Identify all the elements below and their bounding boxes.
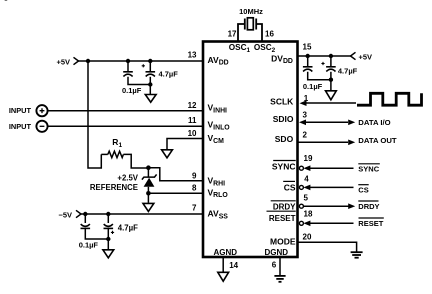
svg-text:20: 20 [303, 233, 312, 242]
inversion bubble pin 19 [299, 166, 303, 170]
svg-text:3: 3 [303, 111, 308, 120]
svg-text:SCLK: SCLK [270, 97, 294, 107]
junction node [306, 54, 310, 58]
svg-text:7: 7 [192, 204, 197, 213]
ground (triangle) for C5/C6 [326, 91, 337, 100]
wire to pin 8 [148, 192, 203, 194]
svg-text:CS: CS [358, 185, 368, 194]
arrowhead into pin 19 [303, 165, 310, 171]
wire MODE pin 20 [298, 242, 357, 251]
junction node [106, 237, 110, 241]
capacitor C4 4.7uF (-5V) [104, 214, 114, 250]
svg-text:4.7µF: 4.7µF [159, 69, 179, 78]
wire SDO pin 2 [298, 141, 349, 143]
svg-text:1: 1 [304, 94, 309, 103]
+5V source connector (right) [351, 52, 356, 59]
capacitor C2 4.7uF (+5V left) [146, 61, 156, 95]
svg-text:16: 16 [265, 30, 274, 39]
svg-text:10MHz: 10MHz [239, 7, 263, 16]
junction node [329, 54, 333, 58]
svg-text:0.1µF: 0.1µF [122, 86, 142, 95]
svg-text:14: 14 [229, 261, 238, 270]
svg-text:DRDY: DRDY [273, 203, 296, 212]
ground (triangle) AGND [218, 272, 229, 281]
svg-text:DATA OUT: DATA OUT [358, 136, 397, 145]
svg-text:INPUT: INPUT [9, 106, 32, 115]
svg-text:11: 11 [188, 116, 197, 125]
clock waveform [357, 93, 422, 105]
svg-text:9: 9 [192, 171, 197, 180]
+5V source connector (left) [74, 57, 79, 64]
svg-text:RESET: RESET [269, 214, 296, 223]
junction node [106, 212, 110, 216]
svg-text:DGND: DGND [265, 248, 289, 257]
svg-text:6: 6 [272, 261, 277, 270]
svg-text:CS: CS [284, 182, 296, 192]
arrowhead out to DRDY [348, 203, 355, 209]
wire DRDY pin 5 [303, 205, 348, 207]
svg-text:AGND: AGND [214, 248, 238, 257]
junction node on +5V rail [86, 59, 90, 63]
junction node (reference bottom) [146, 191, 151, 196]
svg-text:+5V: +5V [56, 57, 70, 66]
svg-text:19: 19 [304, 154, 313, 163]
arrowhead into pin 18 [303, 221, 310, 227]
capacitor C5 0.1uF (DVDD) [303, 56, 331, 80]
wire zener to ground [147, 193, 149, 203]
svg-text:4.7µF: 4.7µF [118, 223, 138, 232]
svg-text:−5V: −5V [58, 210, 72, 219]
-5V source connector [76, 210, 81, 217]
svg-text:4: 4 [304, 174, 309, 183]
wire SYNC pin 19 [309, 167, 354, 169]
zener diode D1 +2.5V reference [142, 168, 157, 194]
wire SCLK pin 1 [305, 102, 356, 104]
junction node [329, 78, 333, 82]
junction node [148, 82, 152, 86]
input connector J1 + [36, 105, 47, 116]
junction node [126, 59, 130, 63]
svg-text:SDO: SDO [275, 134, 294, 144]
polarity mark + [111, 231, 114, 234]
wire J1 to pin 12 [48, 110, 203, 112]
wire +5V rail down to R1 [88, 61, 101, 168]
input connector J2 - [36, 121, 47, 132]
svg-text:+5V: +5V [359, 52, 373, 61]
ground (triangle) for C1/C2 [145, 95, 156, 103]
svg-text:18: 18 [304, 210, 313, 219]
capacitor C1 0.1uF (+5V left) [123, 61, 150, 85]
junction node (reference top) [146, 165, 151, 170]
IC U1 body [203, 42, 298, 258]
ground (triangle) for reference [143, 203, 154, 211]
inversion bubble pin 4 [299, 185, 303, 189]
svg-text:INPUT: INPUT [9, 122, 32, 131]
ground (earth) MODE [351, 252, 363, 258]
arrowhead into pin 3 [299, 120, 306, 126]
wire -5V to pin 7 [81, 213, 203, 215]
svg-text:RESET: RESET [358, 219, 383, 228]
junction node [83, 212, 87, 216]
svg-text:15: 15 [303, 43, 312, 52]
svg-text:REFERENCE: REFERENCE [90, 183, 138, 192]
ground (earth) DGND [274, 276, 285, 282]
wire DVDD pin 15 [298, 55, 351, 57]
wire CS pin 4 [309, 186, 354, 188]
wire to pin 9 [148, 168, 203, 181]
ground (triangle) for C3/C4 [103, 250, 114, 258]
svg-text:0.1µF: 0.1µF [79, 240, 99, 249]
capacitor C3 0.1uF (-5V) [81, 214, 109, 239]
wire SDIO pin 3 [305, 121, 348, 123]
svg-text:2: 2 [303, 131, 308, 140]
svg-text:DATA I/O: DATA I/O [358, 118, 390, 127]
crystal Y1 10MHz [238, 18, 262, 42]
wire VCM pin 10 to ground [167, 139, 203, 150]
svg-text:SDIO: SDIO [273, 114, 294, 124]
svg-text:SYNC: SYNC [358, 164, 379, 173]
svg-text:DRDY: DRDY [358, 202, 379, 211]
svg-text:8: 8 [192, 184, 197, 193]
arrowhead into pin 4 [303, 185, 310, 191]
arrowhead into pin 1 [300, 100, 307, 106]
inversion bubble pin 18 [299, 221, 303, 225]
wire RESET pin 18 [309, 222, 354, 224]
wire AGND pin 14 [222, 257, 224, 272]
ground (triangle) for VCM [162, 150, 173, 158]
capacitor C6 4.7uF (DVDD) [326, 56, 336, 91]
svg-text:17: 17 [228, 30, 237, 39]
stray mark (cropped text) top-left [4, 0, 7, 2]
arrowhead out to DATA OUT [348, 140, 355, 146]
svg-text:4.7µF: 4.7µF [338, 66, 358, 75]
junction node [148, 59, 152, 63]
svg-text:12: 12 [188, 101, 197, 110]
inversion bubble pin 5 [299, 204, 303, 208]
svg-text:SYNC: SYNC [272, 162, 296, 172]
svg-text:13: 13 [188, 51, 197, 60]
svg-text:+2.5V: +2.5V [117, 173, 138, 182]
wire J2 to pin 11 [48, 125, 203, 127]
svg-text:5: 5 [304, 193, 309, 202]
svg-text:MODE: MODE [270, 237, 296, 247]
arrowhead out to DATA I/O [348, 120, 355, 126]
polarity mark + [142, 64, 145, 67]
wire DGND pin 6 [279, 257, 281, 276]
polarity mark + [321, 62, 324, 65]
svg-text:10: 10 [188, 129, 197, 138]
resistor R1 [101, 151, 146, 168]
wire +5V to pin 13 [79, 60, 204, 62]
svg-text:0.1µF: 0.1µF [303, 82, 323, 91]
